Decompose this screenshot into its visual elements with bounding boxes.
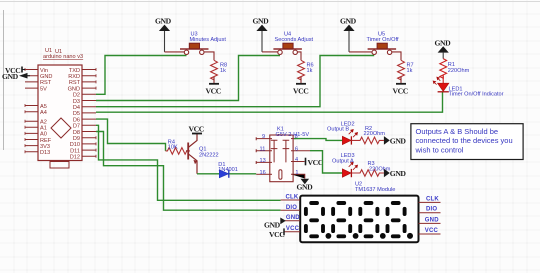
- svg-text:VCC: VCC: [269, 230, 284, 239]
- relay K1 G5V-2-H1-5V: [256, 127, 310, 182]
- svg-text:10K: 10K: [168, 145, 178, 151]
- svg-text:Output B: Output B: [327, 127, 349, 133]
- svg-text:D4: D4: [73, 105, 80, 111]
- svg-text:GND: GND: [425, 217, 439, 223]
- svg-text:1N4001: 1N4001: [218, 167, 238, 173]
- power VCC below R8: [206, 84, 221, 96]
- U2 left pin leads: [281, 200, 300, 232]
- svg-text:Vin: Vin: [40, 68, 48, 74]
- display module U2 TM1637: [281, 181, 441, 242]
- ground GND at relay pin 1: [297, 179, 314, 192]
- K1 coil: [279, 170, 282, 179]
- svg-text:GND: GND: [40, 74, 52, 80]
- resistor R7: [398, 60, 414, 83]
- K1 pin 16 lead: [256, 173, 272, 175]
- ground GND at U1 GND pin: [2, 72, 30, 81]
- power VCC at U1 Vin: [5, 66, 25, 75]
- svg-text:Timer On/Off: Timer On/Off: [367, 37, 399, 43]
- svg-text:VCC: VCC: [189, 125, 204, 134]
- svg-text:D10: D10: [70, 142, 80, 148]
- svg-text:GND: GND: [68, 86, 80, 92]
- svg-text:VCC: VCC: [286, 226, 300, 232]
- svg-text:VCC: VCC: [425, 228, 439, 234]
- svg-text:G5V-2-H1-5V: G5V-2-H1-5V: [276, 132, 310, 138]
- ground GND at display: [264, 218, 286, 230]
- svg-text:A2: A2: [40, 120, 47, 126]
- wire D2 to button U3: [96, 56, 187, 95]
- ground GND above button U4: [253, 17, 270, 52]
- svg-text:A4: A4: [40, 110, 47, 116]
- svg-text:TM1637 Module: TM1637 Module: [355, 187, 395, 193]
- U2 left pin labels: [286, 195, 301, 233]
- resistor R1: [440, 59, 470, 84]
- svg-text:GND: GND: [2, 72, 19, 81]
- svg-text:2N2222: 2N2222: [199, 153, 219, 159]
- K1 pin 11 lead: [256, 149, 272, 152]
- svg-text:GND: GND: [253, 17, 270, 26]
- svg-text:VCC: VCC: [293, 87, 308, 96]
- U1 right pin leads: [82, 68, 96, 158]
- wire D5 to LED1: [96, 92, 443, 112]
- U2 right pin labels: [425, 196, 440, 234]
- svg-text:A1: A1: [40, 126, 47, 132]
- LED LED3 Output A: [332, 153, 358, 177]
- svg-text:Timer On/Off Indicator: Timer On/Off Indicator: [449, 92, 504, 98]
- svg-text:4: 4: [295, 157, 298, 163]
- K1 pin numbers: [260, 134, 299, 176]
- power VCC below R6: [293, 84, 308, 96]
- svg-text:D2: D2: [73, 93, 80, 99]
- svg-text:220Ohm: 220Ohm: [364, 131, 386, 137]
- note box Outputs A & B: [411, 124, 523, 160]
- K1 pin 1 lead: [291, 174, 305, 178]
- resistor R3: [351, 161, 390, 176]
- svg-text:6: 6: [295, 146, 298, 152]
- K1 pin 9 lead: [256, 137, 272, 140]
- svg-text:VCC: VCC: [308, 158, 323, 167]
- svg-text:1k: 1k: [220, 68, 226, 74]
- U1 left pin leads: [25, 68, 38, 153]
- resistor R8: [211, 60, 228, 83]
- svg-text:D13: D13: [40, 150, 50, 156]
- svg-text:arduino nano v3: arduino nano v3: [43, 54, 83, 60]
- K1 pin 8 lead: [291, 138, 296, 140]
- svg-text:Output A: Output A: [332, 158, 354, 164]
- ground GND after R3: [384, 169, 407, 179]
- K1 pin 13 lead: [256, 161, 272, 164]
- svg-text:VCC: VCC: [393, 87, 408, 96]
- svg-text:GND: GND: [286, 215, 300, 221]
- svg-text:D5: D5: [73, 111, 80, 117]
- pushbutton U4: [262, 32, 314, 61]
- svg-text:RXD: RXD: [68, 74, 80, 80]
- U1 right pin names: [68, 68, 81, 161]
- svg-text:GND: GND: [264, 220, 281, 229]
- ground GND above button U5: [340, 17, 357, 52]
- svg-text:GND: GND: [340, 17, 357, 26]
- pushbutton U3: [165, 32, 227, 61]
- transistor Q1 2N2222: [186, 134, 197, 174]
- svg-text:A5: A5: [40, 104, 47, 110]
- svg-text:GND: GND: [435, 38, 452, 47]
- power VCC at display: [269, 228, 284, 238]
- LED LED1 Timer On/Off Indicator: [433, 77, 503, 97]
- svg-text:GND: GND: [297, 183, 314, 192]
- U2 right pin leads: [419, 202, 441, 234]
- svg-text:RST: RST: [40, 80, 52, 86]
- svg-text:D6: D6: [73, 117, 80, 123]
- wire relay pin 6 to LED3: [310, 151, 342, 173]
- power VCC below R7: [393, 84, 408, 96]
- svg-text:TXD: TXD: [69, 68, 80, 74]
- svg-text:GND: GND: [390, 137, 407, 146]
- wire D4 to button U5: [96, 56, 374, 107]
- svg-text:connected to the devices you: connected to the devices you: [416, 136, 513, 145]
- K1 pin 4 lead: [291, 161, 305, 163]
- svg-text:1k: 1k: [307, 68, 313, 74]
- svg-text:D3: D3: [73, 99, 80, 105]
- svg-text:CLK: CLK: [286, 195, 299, 201]
- ground GND after R2: [384, 136, 407, 146]
- svg-text:GND: GND: [390, 169, 407, 178]
- wire relay pin 8 to LED2: [294, 139, 342, 141]
- svg-text:VCC: VCC: [206, 87, 221, 96]
- svg-text:Seconds Adjust: Seconds Adjust: [275, 37, 314, 43]
- LED LED2 Output B: [327, 121, 358, 144]
- diode D1 1N4001: [218, 162, 238, 178]
- resistor R6: [298, 60, 314, 83]
- svg-text:D7: D7: [73, 124, 80, 130]
- svg-text:Outputs A & B Should be: Outputs A & B Should be: [416, 127, 499, 136]
- resistor R2: [351, 126, 385, 144]
- resistor R4: [166, 139, 190, 154]
- svg-text:D9: D9: [73, 136, 80, 142]
- wire Q1 emitter to relay pin 16: [197, 173, 256, 175]
- svg-text:1k: 1k: [407, 68, 413, 74]
- svg-text:13: 13: [260, 158, 266, 164]
- sheet border left: [3, 10, 5, 150]
- svg-text:DIO: DIO: [286, 205, 297, 211]
- svg-text:A0: A0: [40, 132, 47, 138]
- wire D3 to button U4: [96, 56, 280, 101]
- svg-text:220Ohm: 220Ohm: [448, 68, 470, 74]
- svg-text:3V3: 3V3: [40, 144, 50, 150]
- pushbutton U5: [349, 32, 401, 61]
- power VCC above Q1: [189, 125, 204, 134]
- 7-segment digits 8.8.8.8: [306, 203, 405, 236]
- wire D8 to display DIO: [96, 132, 281, 211]
- power VCC at relay pin 4: [306, 158, 323, 167]
- ground GND above button U3: [155, 17, 172, 52]
- svg-text:wish to control: wish to control: [415, 145, 464, 154]
- svg-text:5V: 5V: [40, 86, 47, 92]
- svg-text:1: 1: [295, 170, 298, 176]
- op-amp U1 arduino nano body: [38, 65, 82, 168]
- svg-text:REF: REF: [40, 138, 52, 144]
- ground GND above R1: [435, 38, 452, 58]
- svg-text:RST: RST: [69, 80, 81, 86]
- svg-text:16: 16: [260, 170, 266, 176]
- U1 left pin names: [40, 68, 52, 156]
- svg-text:11: 11: [260, 146, 266, 152]
- display decimal dots: [326, 233, 414, 239]
- K1 internal contacts: [271, 140, 289, 162]
- svg-text:GND: GND: [155, 17, 172, 26]
- wire D7 to display CLK: [96, 125, 281, 200]
- svg-text:9: 9: [262, 134, 265, 140]
- sheet border top: [0, 1, 540, 3]
- svg-text:D12: D12: [70, 155, 80, 161]
- svg-text:Minutes Adjust: Minutes Adjust: [190, 37, 227, 43]
- svg-text:D8: D8: [73, 130, 80, 136]
- svg-text:D11: D11: [70, 148, 80, 154]
- wire D6 to R4: [96, 119, 166, 151]
- svg-text:DIO: DIO: [426, 207, 437, 213]
- K1 pin 6 lead: [291, 150, 310, 152]
- svg-text:CLK: CLK: [426, 196, 439, 202]
